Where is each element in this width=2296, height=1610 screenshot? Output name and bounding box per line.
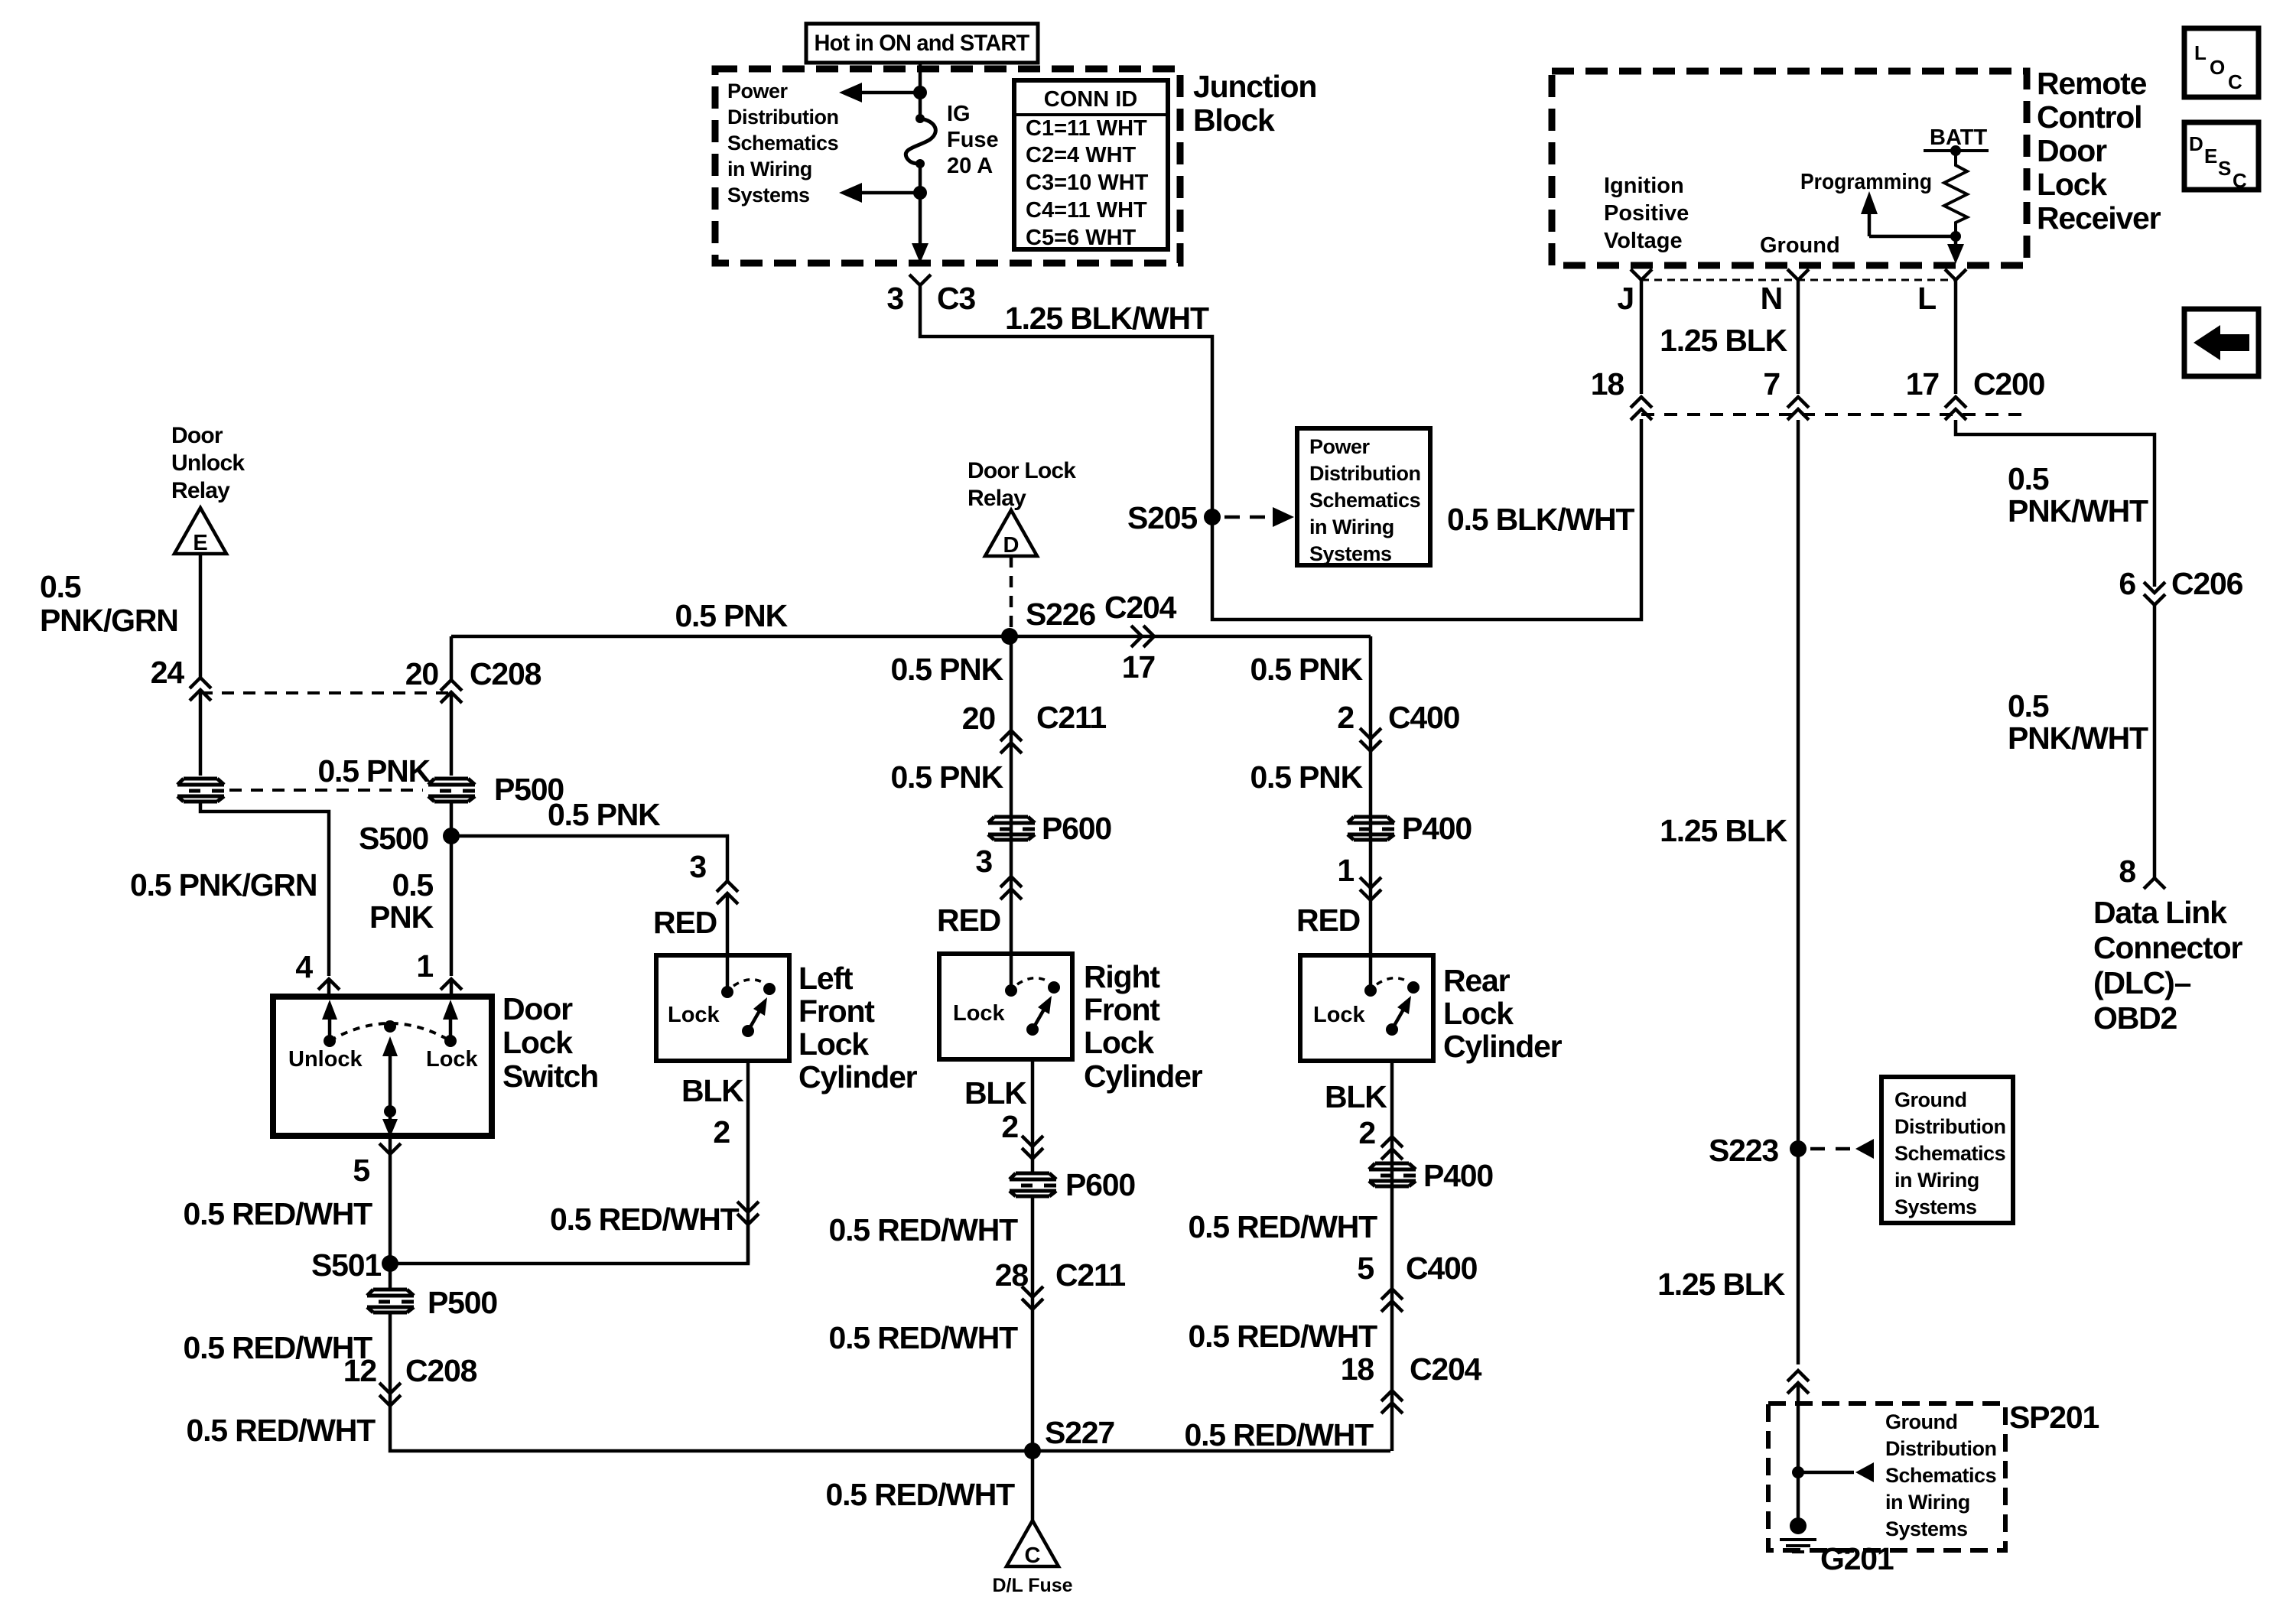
svg-text:Lock: Lock: [1443, 996, 1514, 1031]
svg-text:Voltage: Voltage: [1604, 229, 1683, 253]
pin L chevron: [1945, 269, 1966, 280]
svg-text:Door: Door: [171, 423, 223, 448]
svg-text:24: 24: [151, 655, 185, 690]
box: Hot in ON and START: [806, 24, 1038, 63]
wire: S501 branch to left cylinder return: [390, 1225, 748, 1264]
svg-text:Door: Door: [502, 991, 573, 1026]
svg-text:2: 2: [1337, 700, 1354, 735]
svg-text:Switch: Switch: [502, 1059, 598, 1094]
receiver pin connector row (dashed): [1641, 279, 1956, 281]
node: feed junction lower: [913, 186, 927, 200]
switch arrow up (unlock side): [328, 1017, 332, 1041]
svg-text:Receiver: Receiver: [2037, 200, 2161, 236]
svg-text:Lock: Lock: [426, 1047, 479, 1072]
svg-text:Ground: Ground: [1760, 233, 1840, 258]
wire: right P500 to S500 and down to switch pin 1: [450, 802, 454, 976]
svg-text:0.5: 0.5: [40, 569, 81, 604]
svg-text:3: 3: [689, 849, 706, 884]
grommet P500 left: [177, 779, 224, 802]
svg-text:Front: Front: [798, 994, 875, 1029]
switch dashed arc: [330, 1023, 450, 1041]
connector C204 chevrons pin 18: [1381, 1390, 1403, 1413]
svg-text:20 A: 20 A: [947, 154, 993, 178]
svg-text:0.5: 0.5: [2008, 688, 2049, 724]
svg-text:0.5 PNK/GRN: 0.5 PNK/GRN: [130, 867, 317, 903]
node: feed junction upper: [913, 86, 927, 99]
svg-text:C204: C204: [1410, 1351, 1482, 1387]
svg-text:Left: Left: [798, 961, 854, 996]
node: resistor bottom junction: [1950, 231, 1961, 242]
connector C208 chevrons pin 20: [441, 680, 462, 703]
svg-text:C4=11 WHT: C4=11 WHT: [1026, 198, 1147, 223]
label: Door Lock Relay: [968, 458, 1076, 511]
svg-text:Distribution: Distribution: [1309, 462, 1420, 485]
label: 0.5 PNK/GRN (upper): [40, 569, 178, 638]
connector C200 chevrons pin 18: [1631, 397, 1652, 420]
wire: pin 5 down to S501: [389, 1136, 392, 1289]
svg-text:Lock: Lock: [953, 1001, 1006, 1026]
svg-text:0.5 RED/WHT: 0.5 RED/WHT: [1189, 1319, 1378, 1354]
wire: rear return down to S227 run: [1390, 1061, 1394, 1451]
svg-text:1.25 BLK: 1.25 BLK: [1660, 323, 1787, 358]
table: CONN ID: [1014, 80, 1168, 249]
label: 0.5 PNK (above pin 1): [369, 867, 434, 935]
svg-text:0.5 PNK: 0.5 PNK: [1250, 759, 1363, 795]
svg-text:Block: Block: [1193, 102, 1275, 138]
box: Door Lock Switch: [273, 997, 492, 1136]
wire: pin 3 to left front cylinder: [726, 893, 730, 992]
svg-text:Schematics: Schematics: [727, 132, 838, 154]
wire: left front return down to S501 branch: [746, 1061, 750, 1264]
svg-text:Cylinder: Cylinder: [798, 1059, 918, 1094]
svg-text:C: C: [2233, 169, 2247, 192]
svg-text:C5=6 WHT: C5=6 WHT: [1026, 226, 1137, 250]
pin N chevron: [1787, 269, 1809, 280]
node S226: [1001, 628, 1018, 645]
svg-text:SP201: SP201: [2009, 1400, 2099, 1435]
svg-text:2: 2: [1358, 1115, 1375, 1150]
svg-text:0.5 PNK: 0.5 PNK: [1250, 652, 1363, 687]
svg-text:C: C: [2228, 70, 2242, 93]
wire: left P500 down and over to switch pin 4: [200, 802, 329, 976]
svg-text:Systems: Systems: [1894, 1195, 1977, 1218]
svg-text:6: 6: [2119, 566, 2135, 601]
svg-text:Cylinder: Cylinder: [1443, 1029, 1563, 1064]
svg-text:in Wiring: in Wiring: [1894, 1169, 1979, 1192]
wire: fuse output: [919, 164, 922, 243]
svg-text:PNK/WHT: PNK/WHT: [2008, 720, 2148, 756]
receiver: Remote Control Door Lock Receiver dashed box: [1552, 71, 2027, 265]
box: Left Front Lock Cylinder: [656, 955, 789, 1061]
box: LOC: [2184, 28, 2259, 97]
box: DESC: [2184, 122, 2259, 190]
svg-text:CONN ID: CONN ID: [1044, 87, 1137, 112]
svg-text:OBD2: OBD2: [2093, 1000, 2177, 1036]
svg-text:Power: Power: [727, 80, 789, 102]
svg-text:in Wiring: in Wiring: [727, 158, 812, 181]
grommet P600 lower: [1010, 1173, 1056, 1196]
svg-text:0.5 BLK/WHT: 0.5 BLK/WHT: [1447, 502, 1634, 537]
svg-text:Schematics: Schematics: [1894, 1142, 2005, 1165]
label: Ignition Positive Voltage: [1604, 174, 1689, 253]
switch common node (bottom): [384, 1105, 396, 1117]
svg-text:0.5 RED/WHT: 0.5 RED/WHT: [1189, 1209, 1378, 1244]
svg-text:Unlock: Unlock: [288, 1047, 363, 1072]
switch pin 1 chevron: [441, 979, 462, 990]
svg-text:Right: Right: [1084, 959, 1160, 994]
svg-text:P500: P500: [428, 1285, 497, 1320]
svg-text:RED: RED: [937, 903, 1000, 938]
wire: into SP201 to ground: [1797, 1383, 1800, 1522]
box: Ground Distribution Schematics in Wiring Systems (S223): [1881, 1077, 2013, 1223]
label: 0.5 PNK/WHT (lower): [2008, 688, 2148, 756]
switch arrow up (lock side): [449, 1017, 453, 1041]
junction block dashed box: [715, 69, 1180, 263]
svg-text:E: E: [2204, 145, 2217, 168]
svg-text:Cylinder: Cylinder: [1084, 1059, 1203, 1094]
svg-text:Distribution: Distribution: [1885, 1437, 1996, 1460]
left front pin 2 chevrons: [737, 1202, 759, 1225]
connector C208 chevrons pin 24: [190, 678, 211, 701]
rear switch arm arrow: [1392, 1008, 1404, 1029]
svg-text:P400: P400: [1423, 1158, 1493, 1193]
svg-text:in Wiring: in Wiring: [1309, 516, 1394, 538]
wire: arrow to power distribution (upper): [860, 91, 920, 95]
svg-text:5: 5: [1357, 1251, 1374, 1286]
svg-text:Ignition: Ignition: [1604, 174, 1684, 198]
wire: hot feed into junction block: [919, 63, 922, 119]
relay E triangle: [174, 508, 226, 554]
switch pin 5 chevron: [379, 1143, 401, 1154]
svg-text:E: E: [193, 531, 207, 555]
wire: BATT rail: [1924, 149, 1989, 152]
svg-text:18: 18: [1341, 1351, 1374, 1387]
svg-text:J: J: [1617, 281, 1634, 316]
svg-text:0.5 RED/WHT: 0.5 RED/WHT: [187, 1413, 376, 1448]
grommet P400 lower: [1369, 1163, 1416, 1186]
svg-text:Positive: Positive: [1604, 201, 1689, 226]
svg-text:Data Link: Data Link: [2093, 895, 2227, 930]
connector SP201 chevrons: [1787, 1371, 1809, 1394]
svg-text:Connector: Connector: [2093, 930, 2242, 965]
svg-text:BLK: BLK: [964, 1075, 1027, 1111]
svg-text:D: D: [2189, 132, 2203, 155]
rear pin 2 chevrons: [1381, 1137, 1403, 1160]
svg-text:L: L: [2194, 41, 2207, 64]
label: Door Lock Switch: [502, 991, 598, 1094]
label: Door Unlock Relay: [171, 423, 245, 503]
svg-text:1.25 BLK/WHT: 1.25 BLK/WHT: [1005, 301, 1209, 336]
svg-text:C400: C400: [1406, 1251, 1478, 1286]
wire: P600 lower to S227: [1031, 1196, 1035, 1451]
svg-text:S227: S227: [1045, 1415, 1114, 1450]
wire: 24 chevron to P500: [199, 690, 203, 776]
right front pin 2 chevrons: [1022, 1136, 1043, 1159]
svg-text:8: 8: [2119, 854, 2135, 889]
switch contact: unlock: [324, 1035, 336, 1047]
grommet P600 upper: [988, 817, 1035, 840]
svg-text:2: 2: [1001, 1109, 1018, 1144]
svg-text:0.5 PNK: 0.5 PNK: [890, 759, 1003, 795]
connector C206 chevrons: [2144, 582, 2165, 605]
svg-text:0.5 RED/WHT: 0.5 RED/WHT: [1185, 1417, 1374, 1452]
wire: E relay to 24 chevron: [199, 554, 203, 678]
pin J chevron: [1631, 269, 1652, 280]
svg-text:Door: Door: [2037, 133, 2107, 168]
svg-text:1.25 BLK: 1.25 BLK: [1660, 813, 1787, 848]
svg-text:C208: C208: [405, 1353, 477, 1388]
wire: S226 down to right front cylinder: [1010, 636, 1013, 990]
svg-text:S223: S223: [1709, 1133, 1778, 1168]
dashed link between P500 grommets: [229, 789, 423, 792]
label: 0.5 PNK/WHT (upper): [2008, 461, 2148, 529]
switch contact: lock: [444, 1035, 457, 1047]
right front pin 3 chevrons: [1000, 877, 1022, 899]
svg-text:Fuse: Fuse: [947, 128, 999, 152]
box: Rear Lock Cylinder: [1300, 955, 1433, 1061]
relay D triangle: [985, 510, 1037, 556]
wire: N pin down to S223: [1797, 420, 1800, 1364]
grommet P400 upper: [1348, 817, 1394, 840]
connector C211 chevrons pin 20: [1000, 730, 1022, 753]
svg-text:C211: C211: [1055, 1257, 1125, 1293]
svg-text:0.5 RED/WHT: 0.5 RED/WHT: [550, 1202, 740, 1237]
svg-text:Relay: Relay: [171, 478, 230, 503]
grommet P500 right: [428, 779, 475, 802]
rear dashed arc: [1377, 978, 1409, 984]
svg-text:Power: Power: [1309, 435, 1371, 458]
svg-text:in Wiring: in Wiring: [1885, 1491, 1970, 1514]
connector C208 dashed row: [200, 691, 451, 694]
connector C3 chevron: [909, 275, 931, 285]
svg-text:0.5 PNK: 0.5 PNK: [890, 652, 1003, 687]
svg-text:Unlock: Unlock: [171, 450, 245, 476]
dashed arrow from S205 to power distribution box: [1224, 516, 1271, 519]
svg-text:0.5 PNK: 0.5 PNK: [675, 598, 788, 633]
svg-text:Remote: Remote: [2037, 66, 2147, 101]
svg-text:BLK: BLK: [681, 1073, 744, 1108]
wire: arrow to power distribution (lower): [860, 191, 920, 195]
svg-text:Systems: Systems: [1309, 542, 1392, 565]
resistor R (receiver pull-up): [1944, 151, 1967, 236]
svg-text:S226: S226: [1026, 597, 1095, 632]
svg-text:Lock: Lock: [798, 1026, 869, 1062]
svg-text:Distribution: Distribution: [727, 106, 838, 128]
svg-text:N: N: [1761, 281, 1782, 316]
svg-text:D: D: [1003, 533, 1020, 558]
wire: C206 to DLC pin 8: [2153, 605, 2157, 878]
svg-text:IG: IG: [947, 102, 971, 126]
svg-text:RED: RED: [1296, 903, 1360, 938]
wire: 20 chevron to P500: [450, 692, 454, 776]
svg-text:0.5 RED/WHT: 0.5 RED/WHT: [829, 1320, 1019, 1355]
svg-text:3: 3: [975, 844, 992, 879]
wire: 1.25 BLK/WHT from C3 to receiver pin J: [920, 285, 1641, 620]
svg-text:Programming: Programming: [1800, 170, 1932, 194]
svg-text:Systems: Systems: [727, 184, 810, 207]
svg-text:Schematics: Schematics: [1885, 1464, 1996, 1487]
svg-text:Schematics: Schematics: [1309, 489, 1420, 512]
svg-text:5: 5: [353, 1153, 369, 1188]
svg-text:0.5: 0.5: [2008, 461, 2049, 496]
svg-text:Distribution: Distribution: [1894, 1115, 2005, 1138]
node: BATT tap: [1950, 145, 1961, 156]
svg-text:C211: C211: [1036, 700, 1106, 735]
rear contacts: [1364, 984, 1377, 997]
svg-text:7: 7: [1763, 366, 1780, 402]
right front contacts: [1005, 984, 1017, 997]
svg-text:1: 1: [416, 948, 433, 984]
svg-text:C206: C206: [2171, 566, 2243, 601]
svg-text:Ground: Ground: [1894, 1088, 1966, 1111]
right front switch arm arrow: [1033, 1008, 1045, 1029]
svg-text:P600: P600: [1042, 811, 1111, 846]
splice SP201 dashed box: [1768, 1403, 2005, 1550]
right front dashed arc: [1017, 978, 1049, 984]
svg-text:C3: C3: [937, 281, 975, 316]
ground G201: [1790, 1517, 1807, 1534]
svg-text:D/L Fuse: D/L Fuse: [992, 1575, 1072, 1596]
connector C200 chevrons pin 7: [1787, 397, 1809, 420]
wire: S227 to D/L fuse: [1031, 1451, 1035, 1521]
svg-text:1: 1: [1337, 853, 1354, 888]
wire: pin L to C200: [1954, 280, 1958, 394]
grommet P500 lower: [367, 1290, 414, 1312]
svg-text:3: 3: [886, 281, 903, 316]
svg-text:S501: S501: [311, 1247, 381, 1283]
svg-text:0.5 PNK: 0.5 PNK: [548, 797, 661, 832]
svg-text:Relay: Relay: [968, 486, 1026, 511]
dashed wire: D relay to S226: [1010, 556, 1013, 629]
switch common double arrow: [389, 1055, 392, 1120]
box: Power Distribution Schematics in Wiring Systems (S205): [1297, 428, 1430, 565]
svg-text:PNK/WHT: PNK/WHT: [2008, 493, 2148, 529]
wire: right front return down: [1031, 1059, 1035, 1173]
svg-text:Hot in ON and START: Hot in ON and START: [815, 31, 1029, 56]
arrow to ground distribution (SP201): [1798, 1471, 1854, 1475]
wire: L pin to DLC corner: [1956, 420, 2155, 587]
svg-text:(DLC)–: (DLC)–: [2093, 965, 2191, 1000]
svg-text:18: 18: [1591, 366, 1624, 402]
box: back arrow: [2184, 309, 2259, 376]
svg-text:0.5 RED/WHT: 0.5 RED/WHT: [829, 1212, 1019, 1247]
svg-text:Junction: Junction: [1193, 69, 1316, 104]
wire: pin N to C200: [1797, 280, 1800, 394]
svg-text:S500: S500: [359, 821, 428, 856]
left front switch arm arrow: [748, 1010, 760, 1031]
DLC pin 8 chevron: [2144, 878, 2165, 889]
switch pin 4 chevron: [318, 979, 340, 990]
svg-text:17: 17: [1122, 649, 1155, 685]
svg-text:C3=10 WHT: C3=10 WHT: [1026, 171, 1149, 195]
connector C200 dashed row: [1641, 413, 2023, 416]
connector C204 chevrons (pin 17): [1131, 626, 1154, 647]
connector C400 chevrons pin 2: [1360, 728, 1381, 751]
arrowhead: wire exits junction block: [912, 243, 928, 263]
svg-text:Front: Front: [1084, 992, 1160, 1027]
svg-text:O: O: [2210, 56, 2225, 79]
svg-text:C: C: [1025, 1543, 1041, 1568]
svg-text:Control: Control: [2037, 99, 2142, 135]
svg-text:Lock: Lock: [502, 1025, 573, 1060]
svg-text:C208: C208: [470, 656, 541, 691]
svg-text:PNK/GRN: PNK/GRN: [40, 603, 178, 638]
connector C208 chevrons pin 12: [379, 1383, 401, 1406]
svg-text:P400: P400: [1402, 811, 1472, 846]
connector C400 chevrons pin 5: [1381, 1289, 1403, 1312]
svg-text:Ground: Ground: [1885, 1410, 1957, 1433]
svg-text:C400: C400: [1388, 700, 1460, 735]
svg-text:Lock: Lock: [1313, 1003, 1366, 1027]
node S501: [382, 1255, 398, 1272]
svg-text:Lock: Lock: [1084, 1025, 1154, 1060]
svg-text:0.5: 0.5: [392, 867, 434, 903]
rear pin 1 chevrons: [1360, 877, 1381, 900]
node S205: [1204, 509, 1221, 525]
wire: pin 4 stub into switch: [327, 979, 331, 997]
node S223: [1790, 1140, 1807, 1157]
svg-text:Door Lock: Door Lock: [968, 458, 1076, 483]
svg-text:S205: S205: [1127, 500, 1197, 535]
label: Power Distribution Schematics in Wiring Systems (junction block): [727, 80, 838, 207]
svg-text:2: 2: [713, 1114, 730, 1150]
label: Ground Distribution Schematics in Wiring Systems (SP201): [1885, 1410, 1996, 1540]
node S500: [443, 828, 460, 844]
svg-text:G201: G201: [1820, 1541, 1894, 1576]
svg-text:Rear: Rear: [1443, 963, 1511, 998]
svg-text:0.5 RED/WHT: 0.5 RED/WHT: [826, 1477, 1016, 1512]
svg-text:RED: RED: [653, 905, 717, 940]
node: SP201 junction: [1792, 1466, 1804, 1478]
wire: bus corner down to rear cylinder: [1369, 636, 1373, 990]
svg-text:12: 12: [343, 1353, 377, 1388]
dashed arrow from S223 to ground distribution box: [1810, 1147, 1851, 1151]
connector C211 chevrons pin 28: [1022, 1286, 1043, 1309]
label: Data Link Connector (DLC)- OBD2: [2093, 895, 2242, 1036]
box: Right Front Lock Cylinder: [939, 954, 1072, 1059]
svg-text:20: 20: [405, 656, 439, 691]
wire: pin 1 stub into switch: [450, 979, 454, 997]
left front dashed arc: [733, 980, 765, 986]
svg-text:P600: P600: [1065, 1167, 1135, 1202]
svg-text:C1=11 WHT: C1=11 WHT: [1026, 116, 1147, 141]
wire: S500 branch to left front lock cylinder: [451, 836, 727, 881]
svg-text:Lock: Lock: [2037, 167, 2107, 202]
label: IG Fuse 20 A: [947, 102, 999, 178]
wire: 0.5 PNK bus: [451, 636, 1371, 680]
svg-text:0.5 RED/WHT: 0.5 RED/WHT: [184, 1196, 373, 1231]
node S227: [1024, 1442, 1041, 1459]
svg-text:C204: C204: [1104, 590, 1177, 625]
svg-text:Systems: Systems: [1885, 1517, 1968, 1540]
left front contacts: [721, 986, 733, 998]
svg-text:1.25 BLK: 1.25 BLK: [1657, 1267, 1785, 1302]
arrowhead: ground wire exits receiver: [1954, 236, 1958, 245]
connector C200 chevrons pin 17: [1945, 397, 1966, 420]
label: Remote Control Door Lock Receiver: [2037, 66, 2161, 236]
svg-text:20: 20: [962, 701, 996, 736]
svg-text:C2=4 WHT: C2=4 WHT: [1026, 143, 1137, 168]
fuse C triangle (D/L Fuse): [1007, 1521, 1059, 1566]
fuse F IG 20A: [915, 114, 925, 123]
svg-text:BLK: BLK: [1325, 1079, 1387, 1114]
svg-text:S: S: [2218, 157, 2231, 180]
svg-text:C200: C200: [1973, 366, 2045, 402]
svg-text:4: 4: [295, 949, 313, 984]
svg-text:Lock: Lock: [668, 1003, 720, 1027]
left front pin 3 chevrons: [717, 881, 738, 904]
svg-text:0.5 PNK: 0.5 PNK: [317, 753, 431, 789]
